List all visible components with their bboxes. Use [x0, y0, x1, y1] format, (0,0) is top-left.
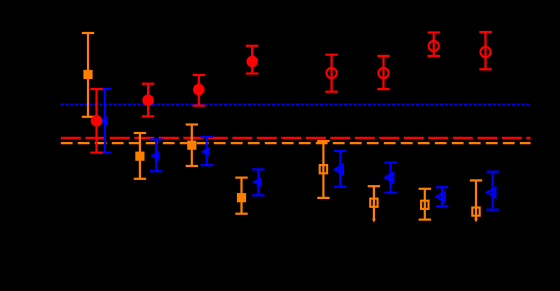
error bar blue point 6: [384, 163, 396, 193]
marker orange square 4: [237, 193, 246, 202]
error bar blue point 2: [150, 139, 162, 171]
marker red circle 2: [142, 94, 154, 106]
error bar blue point 4: [252, 169, 264, 195]
error bar blue point 1: [99, 89, 111, 153]
marker red circle 6: [378, 68, 388, 78]
marker orange square 6: [370, 199, 377, 207]
marker blue triangle 8: [487, 188, 495, 197]
blue dotted reference line: [61, 103, 531, 105]
marker orange square 5: [320, 165, 327, 173]
marker red circle 3: [193, 84, 205, 96]
marker orange square 2: [135, 152, 144, 161]
error bar orange point 6: [368, 186, 380, 223]
marker blue triangle 3: [201, 147, 210, 157]
red dashed reference line: [61, 137, 531, 139]
marker blue triangle 6: [385, 173, 393, 182]
marker red circle 1: [91, 115, 103, 127]
marker blue triangle 7: [437, 192, 445, 201]
marker red circle 4: [246, 56, 258, 68]
marker blue triangle 1: [99, 116, 108, 126]
error bar red point 8: [479, 32, 491, 69]
marker orange square 8: [472, 208, 479, 216]
marker orange square 3: [187, 141, 196, 150]
marker orange square 7: [421, 201, 428, 209]
error bar orange point 4: [235, 178, 247, 214]
orange dashed reference line: [61, 142, 531, 144]
error bar blue point 3: [201, 137, 213, 165]
error bar red point 5: [325, 55, 337, 92]
marker orange square 1: [83, 70, 92, 79]
error bar red point 3: [193, 75, 205, 106]
marker red circle 5: [327, 68, 337, 78]
marker blue triangle 5: [335, 165, 343, 174]
error bar orange point 3: [186, 125, 198, 167]
error bar orange point 1: [82, 33, 94, 117]
marker red circle 7: [429, 41, 439, 51]
marker blue triangle 2: [150, 151, 159, 161]
error bar orange point 7: [419, 189, 431, 220]
error bar red point 2: [142, 84, 154, 117]
error bar blue point 8: [487, 172, 499, 210]
error bar blue point 7: [436, 187, 448, 206]
error bar red point 1: [90, 89, 102, 153]
error bar orange point 2: [134, 133, 146, 179]
error bar red point 6: [377, 56, 389, 89]
error bar red point 4: [246, 46, 258, 74]
error bar orange point 8: [470, 180, 482, 222]
error bar orange point 5: [317, 141, 329, 198]
marker red circle 8: [480, 47, 490, 57]
error bar blue point 5: [334, 151, 346, 187]
marker blue triangle 4: [253, 177, 262, 187]
error bar red point 7: [428, 33, 440, 56]
